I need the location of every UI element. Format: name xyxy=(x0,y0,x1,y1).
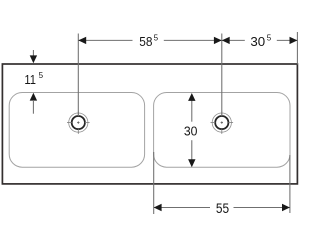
arrow 30.5 right xyxy=(290,37,298,44)
drain left ticks xyxy=(67,111,90,134)
extension line left drain xyxy=(77,34,79,117)
arrow 58.5 left xyxy=(78,37,86,44)
extension line 55 right xyxy=(289,155,291,213)
svg-text:11: 11 xyxy=(24,72,36,87)
arrow 30.5 left xyxy=(222,37,230,44)
countertop outline xyxy=(2,64,297,184)
basin right xyxy=(154,93,290,168)
dim 11.5 lower line xyxy=(32,100,34,114)
drain right thin circle xyxy=(212,113,231,132)
extension line right drain xyxy=(221,34,223,117)
drain right ticks xyxy=(211,111,234,134)
svg-text:5: 5 xyxy=(267,33,272,42)
drain right center cross xyxy=(221,121,223,123)
dim line 30.5 xyxy=(222,39,298,41)
dim 11.5 upper line xyxy=(32,50,34,57)
arrow 11.5 up xyxy=(30,93,37,101)
drain right bold circle xyxy=(215,116,228,129)
drain left bold circle xyxy=(72,116,85,129)
arrow 30 up xyxy=(188,93,195,101)
svg-text:30: 30 xyxy=(250,34,265,49)
dim line 55 xyxy=(154,207,290,209)
svg-text:58: 58 xyxy=(139,34,152,49)
drain left center cross xyxy=(77,121,79,123)
arrow 58.5 right xyxy=(214,37,222,44)
arrow 55 left xyxy=(154,204,162,211)
basin left xyxy=(9,93,144,168)
svg-text:55: 55 xyxy=(216,201,229,216)
drain left thin circle xyxy=(69,113,88,132)
dim line 58.5 xyxy=(78,39,222,41)
extension line right edge xyxy=(296,32,298,65)
svg-text:30: 30 xyxy=(184,124,198,139)
arrow 55 right xyxy=(282,204,290,211)
arrow 30 down xyxy=(188,159,195,167)
svg-text:5: 5 xyxy=(39,71,44,80)
dim 30 vertical lines xyxy=(191,100,193,161)
extension line 55 left xyxy=(153,152,155,214)
arrow 11.5 down xyxy=(30,55,37,63)
svg-text:5: 5 xyxy=(154,33,159,42)
